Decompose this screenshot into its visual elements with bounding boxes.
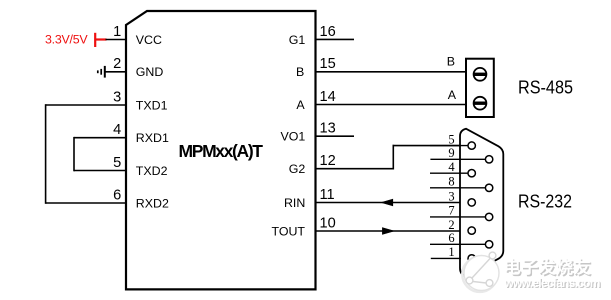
- wire net G2 (pin12 to DB9 pin5): [315, 145, 469, 170]
- wire net B (pin15 to RS-485 terminal): [315, 71, 467, 73]
- svg-text:7: 7: [448, 204, 454, 218]
- svg-text:RXD1: RXD1: [136, 131, 169, 145]
- arrowhead RIN (points left): [381, 199, 393, 206]
- svg-text:3.3V/5V: 3.3V/5V: [45, 32, 88, 46]
- svg-text:G1: G1: [289, 33, 306, 47]
- DB9 pin 5 hole: [468, 142, 475, 149]
- watermark logo circle (elecfans): [462, 252, 499, 292]
- watermark text line 1: [504, 257, 592, 278]
- svg-text:11: 11: [320, 187, 335, 203]
- wire pin2 GND: [105, 71, 127, 73]
- svg-text:15: 15: [320, 56, 336, 72]
- svg-text:电子发烧友: 电子发烧友: [504, 257, 591, 277]
- svg-text:RS-485: RS-485: [518, 76, 573, 97]
- svg-text:G2: G2: [289, 162, 306, 176]
- wire pin1 VCC: [106, 39, 128, 41]
- net TXD1-RXD2 loopback wire (pin3 to pin6): [46, 104, 127, 204]
- svg-text:12: 12: [320, 153, 336, 169]
- svg-text:6: 6: [113, 187, 121, 203]
- DB9 pin 6 stub: [430, 243, 485, 245]
- DB9 pin 3 hole: [468, 199, 475, 206]
- svg-text:VCC: VCC: [136, 33, 162, 47]
- svg-text:1: 1: [448, 245, 454, 259]
- svg-text:13: 13: [320, 121, 336, 137]
- svg-text:2: 2: [113, 56, 121, 72]
- svg-text:1: 1: [113, 24, 121, 40]
- svg-text:RIN: RIN: [284, 196, 305, 210]
- screw terminal B: [474, 68, 487, 81]
- svg-text:TXD1: TXD1: [136, 98, 168, 112]
- DB9 pin 4 stub: [430, 172, 468, 174]
- wire net RIN (DB9 pin3 to pin11): [315, 202, 469, 204]
- DB9 pin 8 hole: [485, 184, 492, 191]
- DB9 pin 8 stub: [430, 187, 485, 189]
- arrowhead TOUT (points right): [382, 228, 394, 235]
- DB9 pin 7 stub: [430, 216, 485, 218]
- svg-text:GND: GND: [136, 65, 164, 79]
- svg-text:B: B: [447, 54, 455, 68]
- svg-text:3: 3: [448, 189, 454, 203]
- svg-text:14: 14: [320, 89, 336, 105]
- svg-text:5: 5: [448, 132, 454, 146]
- svg-text:4: 4: [113, 122, 121, 138]
- screw terminal A: [474, 97, 487, 110]
- svg-text:B: B: [296, 65, 304, 79]
- svg-text:6: 6: [448, 231, 454, 245]
- wire net A (pin14 to RS-485 terminal): [315, 104, 467, 106]
- DB9 pin 4 hole: [468, 170, 475, 177]
- svg-text:RS-232: RS-232: [518, 191, 572, 212]
- DB9 connector J2 body: [460, 129, 503, 277]
- svg-text:2: 2: [448, 218, 454, 232]
- svg-text:TXD2: TXD2: [136, 164, 168, 178]
- DB9 pin 5 stub: [430, 145, 468, 147]
- pin 16 stub G1: [315, 38, 355, 40]
- svg-text:RXD2: RXD2: [136, 196, 169, 210]
- pin 13 stub VO1: [315, 135, 355, 137]
- svg-text:VO1: VO1: [281, 130, 306, 144]
- svg-text:A: A: [448, 88, 457, 102]
- DB9 pin 6 hole: [485, 241, 492, 248]
- wire net TOUT (pin10 to DB9 pin2): [315, 230, 469, 232]
- DB9 pin 2 hole: [468, 227, 475, 234]
- DB9 pin 9 hole: [485, 156, 492, 163]
- net RXD1-TXD2 loopback wire (pin4 to pin5): [74, 137, 127, 171]
- svg-text:MPMxx(A)T: MPMxx(A)T: [179, 141, 264, 161]
- svg-text:3: 3: [113, 89, 121, 105]
- DB9 pin 1 hole: [468, 255, 475, 262]
- ground symbol: [98, 66, 105, 78]
- svg-text:A: A: [296, 98, 305, 112]
- power rail symbol 3.3V/5V: [95, 33, 106, 47]
- svg-text:4: 4: [448, 160, 455, 174]
- DB9 pin 7 hole: [485, 213, 492, 220]
- RS-485 terminal block J1 body: [466, 59, 494, 117]
- watermark text line 2: [503, 276, 601, 291]
- svg-text:16: 16: [320, 24, 336, 40]
- svg-text:10: 10: [320, 215, 336, 231]
- DB9 pin 1 stub: [431, 257, 461, 259]
- svg-text:8: 8: [448, 175, 454, 189]
- IC U1 body MPMxx(A)T: [126, 11, 316, 289]
- svg-text:5: 5: [113, 155, 121, 171]
- DB9 pin 9 stub: [430, 158, 485, 160]
- svg-text:9: 9: [448, 146, 454, 160]
- svg-text:www.elecfans.com: www.elecfans.com: [503, 276, 600, 290]
- svg-text:TOUT: TOUT: [272, 224, 306, 238]
